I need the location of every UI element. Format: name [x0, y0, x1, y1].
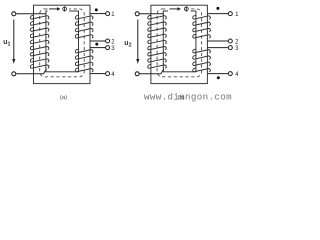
wire to terminal 2 (b): [207, 40, 228, 42]
wire to terminal 1 (a): [90, 13, 106, 15]
terminal 4 (b): [228, 72, 232, 76]
flux direction arrow: [168, 6, 191, 12]
polarity dot terminal 4 side (b): [217, 76, 220, 79]
wire to terminal 4 (b): [207, 73, 228, 75]
terminal 3 (a): [106, 46, 110, 50]
svg-text:www.diangon.com: www.diangon.com: [144, 92, 232, 103]
flux path dashed loop (a): [40, 9, 84, 77]
svg-text:(a): (a): [60, 95, 67, 101]
wire to terminal 3 (a): [90, 47, 106, 49]
secondary winding 1-2 right limb (a): [75, 16, 93, 20]
secondary winding 3-4 right limb (b): [193, 49, 211, 53]
primary winding left limb (b): [148, 15, 167, 19]
terminal 2 (a): [106, 39, 110, 43]
bottom-left terminal (b): [135, 72, 139, 76]
wire to terminal 4 (a): [90, 73, 106, 75]
voltage arrow u2: [137, 20, 139, 60]
iron core outer outline (b): [151, 5, 208, 83]
polarity dot terminal 1 side (a): [95, 8, 98, 11]
terminal 3 (b): [228, 46, 232, 50]
wire to terminal 3 (b): [207, 47, 228, 49]
terminal 2 (b): [228, 39, 232, 43]
svg-text:(b): (b): [177, 95, 184, 101]
flux path dashed loop (b): [157, 9, 202, 77]
primary winding left limb (a): [30, 15, 49, 19]
wire to terminal 2 (a): [90, 40, 106, 42]
flux label phi: [184, 7, 188, 11]
iron core window inner outline (a): [46, 11, 79, 72]
wire top-left terminal to primary winding: [16, 13, 46, 15]
flux direction arrow: [48, 6, 70, 12]
wire bottom-left terminal to primary winding: [139, 69, 164, 74]
wire to terminal 1 (b): [207, 13, 228, 15]
iron core window inner outline (b): [163, 11, 196, 72]
wire top-left terminal to primary winding: [139, 13, 163, 15]
secondary winding 1-2 right limb (b): [193, 16, 211, 20]
wire bottom-left terminal to primary winding: [16, 69, 47, 74]
terminal 1 (a): [106, 12, 110, 16]
polarity dot terminal 1 side (b): [216, 7, 219, 10]
secondary winding 3-4 right limb (a): [75, 49, 93, 53]
top-left terminal (a): [12, 12, 16, 16]
top-left terminal (b): [135, 12, 139, 16]
terminal 4 (a): [106, 72, 110, 76]
iron core outer outline (a): [34, 5, 91, 83]
bottom-left terminal (a): [12, 72, 16, 76]
polarity dot terminal 3 side (a): [95, 43, 98, 46]
flux label phi: [63, 7, 67, 11]
terminal 1 (b): [228, 12, 232, 16]
voltage arrow u1: [13, 20, 15, 60]
